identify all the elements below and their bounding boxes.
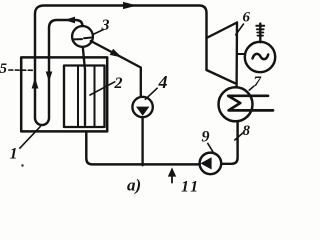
turbine right edge and exhaust drop to condenser (235, 23, 238, 88)
shaft turbine-generator (237, 53, 246, 55)
flow arrow on diagonal (110, 49, 122, 58)
svg-text:3: 3 (101, 17, 110, 34)
leader 6 (236, 24, 244, 35)
turbine casing top slant 6 (207, 23, 238, 39)
wire: valve outlet drop (141, 117, 143, 165)
wire: main steam loop (well riser, top run, down to turbine inlet) (35, 6, 207, 119)
condensate pump 9 (200, 153, 222, 175)
bundle tube left (77, 66, 79, 126)
svg-text:а): а) (127, 176, 141, 195)
wire: separator-to-well downcomer with U-bend (35, 20, 83, 125)
svg-text:2: 2 (114, 75, 123, 92)
leader 2 (90, 82, 115, 95)
cooling coil sigma and cooling-water pipes (228, 96, 273, 111)
throttle valve 4 (132, 97, 152, 117)
evaporator vessel (well box) 1 (21, 57, 107, 131)
liquid level line in separator (74, 38, 91, 40)
leader 4 (145, 88, 157, 99)
leader 7 (249, 86, 254, 90)
makeup water arrow 11 (171, 175, 173, 183)
leader 5 (dashed) (9, 69, 34, 71)
svg-text:5: 5 (0, 61, 8, 77)
leader 3 (94, 30, 104, 35)
leader 1 (20, 127, 41, 149)
flow arrow down on downcomer (46, 72, 53, 82)
wire: separator to throttle valve (diagonal + drop) (91, 41, 141, 97)
bundle tube right (94, 66, 96, 126)
svg-text:6: 6 (243, 10, 251, 26)
svg-text:4: 4 (158, 72, 168, 92)
turbine exhaust slant (207, 70, 236, 83)
generator (245, 42, 275, 72)
flow arrow left on downcomer top run (65, 17, 76, 24)
flow arrow up on well riser (32, 78, 39, 89)
wire: evaporator outlet down to condensate run (86, 132, 199, 165)
svg-text:7: 7 (254, 74, 262, 90)
grid connection lead with hatches (256, 24, 264, 43)
heater bundle frame 2 (64, 66, 105, 128)
AC tilde in generator (253, 54, 269, 59)
valve plug (136, 107, 149, 116)
svg-text:8: 8 (243, 123, 251, 139)
separator drum 3 (72, 26, 93, 47)
svg-text:11: 11 (181, 179, 200, 196)
leader 9 (208, 143, 214, 152)
pump impeller arrow (200, 157, 211, 169)
svg-text:1: 1 (10, 146, 18, 163)
wire: pump discharge to condenser riser (221, 122, 237, 164)
wire: separator bottom feed into evaporator bundle (83, 47, 85, 125)
condenser 7 (219, 87, 253, 121)
flow arrow right on top run (123, 2, 137, 9)
leader 8 (235, 133, 243, 140)
